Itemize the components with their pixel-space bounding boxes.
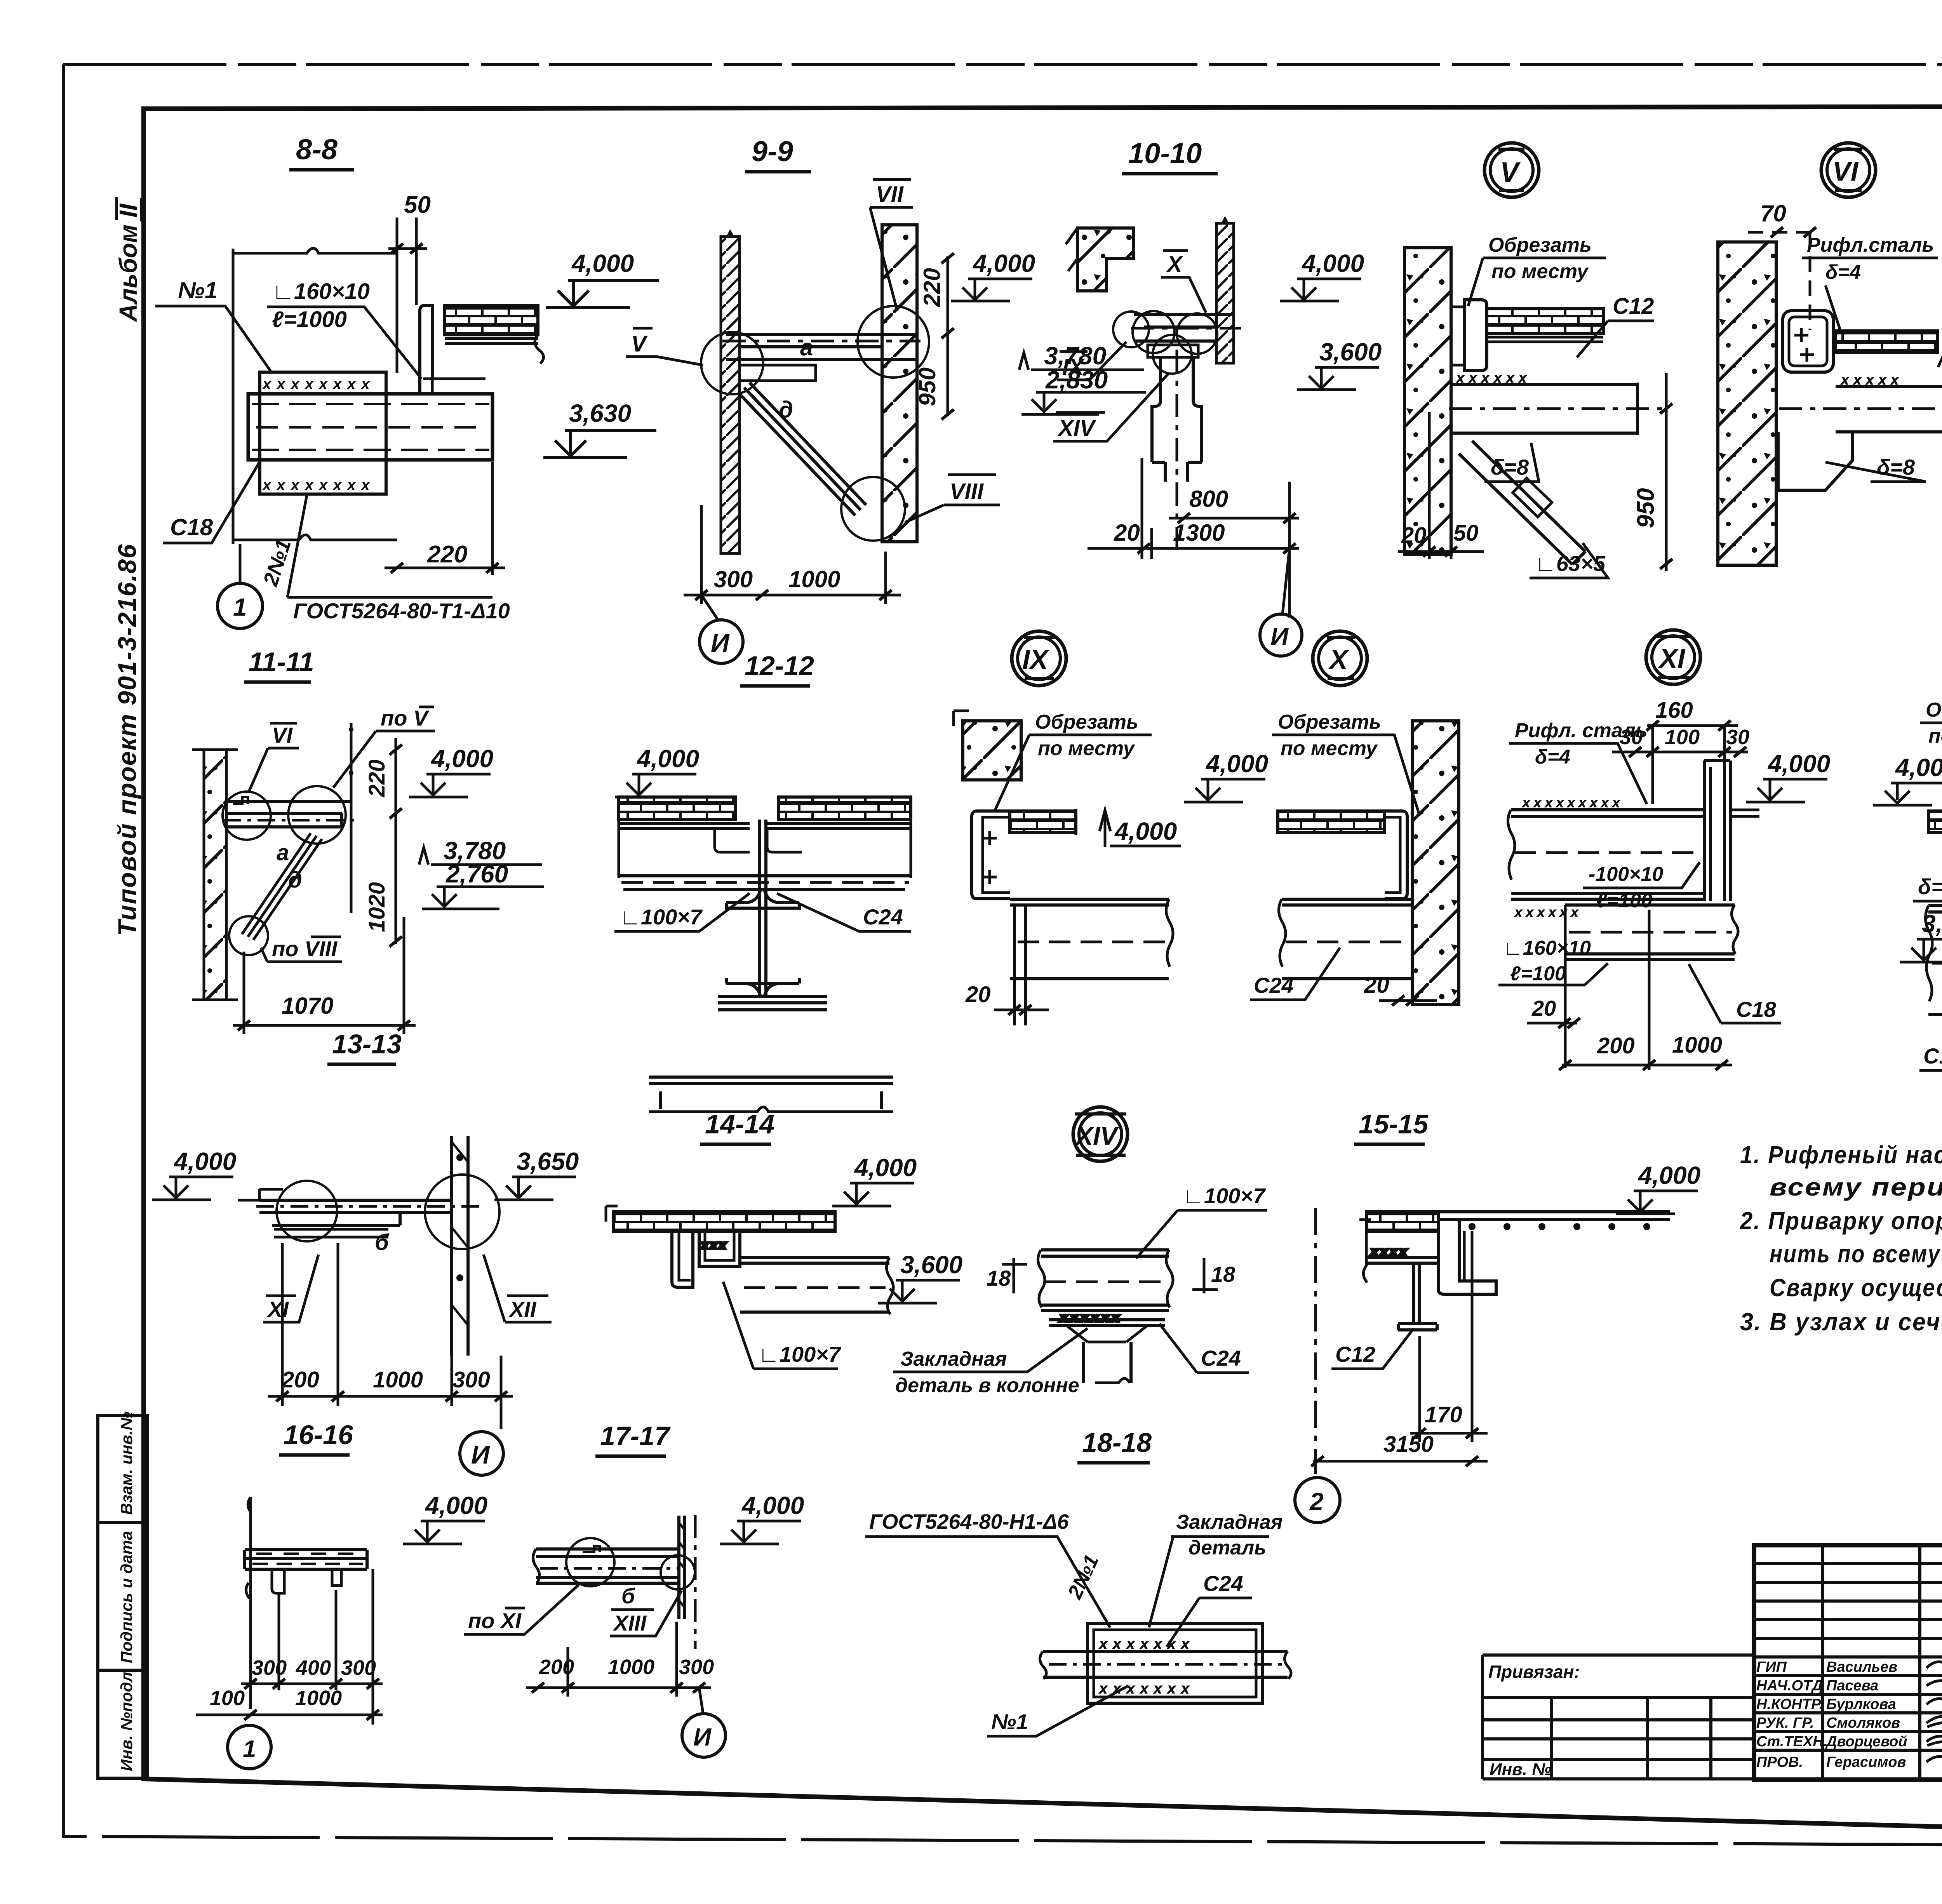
- circle 1 callout: [218, 583, 263, 628]
- svg-text:1: 1: [243, 1736, 256, 1763]
- level 3,630: [543, 399, 656, 458]
- head circle IX: [1012, 631, 1066, 686]
- svg-text:всему периметру опирания.: всему периметру опирания.: [1770, 1173, 1942, 1201]
- small left table: [1483, 1655, 1754, 1779]
- label angle 100x7: [1136, 1183, 1267, 1258]
- L angle hanging: [1438, 1220, 1496, 1294]
- circle 1: [228, 1725, 271, 1769]
- axis circle I: [700, 620, 743, 663]
- label angle 63x5: [1530, 543, 1608, 578]
- long dim line with break: [233, 248, 397, 544]
- rotated 2N1: [259, 536, 296, 589]
- label XIV: [1053, 373, 1169, 441]
- label -100x10 l=100: [1583, 862, 1700, 912]
- level 4,000: [1873, 754, 1942, 805]
- rotated 2N1: [1063, 1551, 1103, 1603]
- head circle XIV: [1073, 1107, 1128, 1161]
- beam C12: [1449, 370, 1666, 435]
- floor plate: [1010, 811, 1076, 833]
- floor thin right with studs: [1438, 1212, 1670, 1229]
- svg-text:xxxxxxx: xxxxxxx: [1098, 1636, 1195, 1652]
- column below: [1152, 350, 1202, 552]
- levels 3,780 / 2,760: [419, 837, 544, 909]
- svg-text:Закладная: Закладная: [900, 1348, 1007, 1370]
- svg-text:б: б: [375, 1230, 390, 1255]
- svg-text:15-15: 15-15: [1359, 1109, 1429, 1139]
- svg-text:по XI: по XI: [468, 1608, 522, 1633]
- embedded plate C18: [260, 372, 386, 494]
- svg-text:И: И: [693, 1723, 712, 1751]
- level 3,650: [494, 1147, 579, 1200]
- outer thin border top: [63, 63, 1942, 66]
- base beam below: [649, 1077, 893, 1112]
- label po XI: [464, 1585, 579, 1634]
- label XI: [263, 1255, 318, 1322]
- label N1 with leader: [155, 277, 272, 373]
- svg-text:1020: 1020: [364, 882, 390, 932]
- svg-text:Типовой проект 901-3-216.86: Типовой проект 901-3-216.86: [113, 543, 141, 936]
- label angle 160x10 l=100: [1498, 937, 1608, 985]
- svg-text:Взам. инв.№: Взам. инв.№: [117, 1411, 136, 1515]
- circle I: [682, 1714, 726, 1757]
- label VII: [870, 179, 913, 311]
- svg-text:ГОСТ5264-80-Н1-Δ6: ГОСТ5264-80-Н1-Δ6: [869, 1510, 1069, 1533]
- svg-text:xxxxxxxxx: xxxxxxxxx: [1522, 795, 1624, 810]
- svg-text:1: 1: [233, 593, 247, 621]
- svg-text:по месту: по месту: [1491, 260, 1589, 283]
- svg-text:xxxx: xxxx: [1370, 1245, 1410, 1258]
- svg-text:3. В узлах и сечениях огра: 3. В узлах и сечениях ограждение условно…: [1740, 1308, 1942, 1336]
- label cut to fit: [1920, 699, 1942, 810]
- wall: [1404, 248, 1451, 555]
- label XIII: [610, 1591, 682, 1636]
- svg-text:Инв. №подл.: Инв. №подл.: [117, 1667, 136, 1771]
- svg-text:по V: по V: [381, 706, 430, 730]
- svg-text:Смоляков: Смоляков: [1826, 1715, 1900, 1731]
- svg-text:С24: С24: [1254, 973, 1294, 997]
- lower beam C18: [1565, 905, 1738, 1068]
- stamp box label: Взам. инв. №: [117, 1411, 136, 1515]
- level 4,000: [720, 1492, 804, 1544]
- detail IX: [954, 631, 1181, 1025]
- wall plate right: [679, 1516, 684, 1619]
- svg-text:V: V: [631, 331, 648, 357]
- corner concrete L: [1077, 228, 1134, 291]
- level 4,000: [546, 249, 659, 308]
- C12 I-beam below: [1398, 1263, 1437, 1330]
- svg-text:10-10: 10-10: [1128, 137, 1202, 169]
- svg-text:4,000: 4,000: [1767, 750, 1830, 778]
- svg-text:∟100×7: ∟100×7: [619, 905, 703, 929]
- diagonal strut V: [1459, 441, 1585, 564]
- svg-text:300: 300: [679, 1655, 714, 1679]
- svg-text:Альбом II: Альбом II: [114, 203, 142, 322]
- svg-text:∟160×10: ∟160×10: [1503, 937, 1591, 959]
- left grid thin rows (upper): [1754, 1564, 1942, 1657]
- beam to right: [740, 1258, 893, 1314]
- label d=8: [1484, 443, 1539, 482]
- level 4,000: [1746, 750, 1830, 802]
- section 17-17: [464, 1421, 804, 1757]
- svg-text:1000: 1000: [1672, 1032, 1722, 1058]
- label zakladnaya detal: [1149, 1511, 1282, 1627]
- level 4,000: [1184, 750, 1268, 802]
- svg-text:IX: IX: [1062, 355, 1085, 380]
- svg-text:И: И: [711, 628, 730, 657]
- label rifl steel: [1509, 719, 1648, 804]
- joint circles: [1113, 311, 1217, 374]
- svg-text:Обрезать: Обрезать: [1035, 711, 1138, 733]
- svg-text:a: a: [800, 334, 813, 360]
- svg-text:Закладная: Закладная: [1176, 1511, 1282, 1533]
- svg-text:220: 220: [919, 268, 945, 307]
- svg-text:С12: С12: [1335, 1342, 1375, 1366]
- svg-text:100: 100: [1665, 726, 1700, 749]
- head circle X: [1313, 631, 1367, 686]
- dims 20 50: [1398, 412, 1484, 559]
- label po VIII: [261, 936, 342, 962]
- beam 9-9: [722, 334, 921, 381]
- svg-text:1070: 1070: [282, 993, 333, 1019]
- svg-text:1300: 1300: [1173, 520, 1225, 546]
- svg-text:400: 400: [296, 1656, 331, 1679]
- svg-text:С18: С18: [1736, 997, 1777, 1022]
- svg-text:200: 200: [281, 1367, 319, 1392]
- svg-text:δ=10: δ=10: [1918, 874, 1942, 899]
- label C12: [1577, 294, 1654, 357]
- svg-text:xxx: xxx: [701, 1239, 728, 1251]
- thin wall with flanges: [452, 1136, 468, 1356]
- svg-text:14-14: 14-14: [705, 1109, 774, 1139]
- svg-text:xxxxxxxx: xxxxxxxx: [262, 376, 375, 393]
- svg-text:4,000: 4,000: [1637, 1161, 1700, 1189]
- svg-text:И: И: [1270, 623, 1289, 651]
- svg-text:950: 950: [914, 367, 940, 406]
- label X top: [1161, 251, 1206, 313]
- role names column: [1756, 1659, 1907, 1770]
- dim 20: [1527, 996, 1580, 1028]
- svg-text:НАЧ.ОТД: НАЧ.ОТД: [1756, 1678, 1823, 1694]
- beam below: [1010, 899, 1173, 1025]
- section 8-8: [155, 133, 659, 628]
- svg-text:1000: 1000: [608, 1655, 654, 1679]
- svg-text:№1: №1: [178, 277, 218, 303]
- level 4,000 right: [1616, 1161, 1700, 1214]
- label C24: [1167, 1571, 1252, 1647]
- svg-text:д: д: [288, 867, 302, 893]
- svg-text:VI: VI: [1832, 156, 1859, 186]
- svg-text:xxxxxx: xxxxxx: [1456, 370, 1531, 386]
- svg-text:И: И: [471, 1440, 490, 1469]
- svg-text:ℓ=1000: ℓ=1000: [272, 307, 347, 332]
- label C24: [1250, 948, 1340, 1000]
- svg-text:Пасева: Пасева: [1826, 1678, 1878, 1694]
- embedded plate: [1088, 1624, 1262, 1703]
- svg-text:18: 18: [987, 1266, 1011, 1290]
- label angle 100x7: [723, 1282, 842, 1369]
- svg-text:70: 70: [1760, 200, 1786, 226]
- svg-text:ℓ=100: ℓ=100: [1510, 962, 1566, 985]
- svg-text:2,760: 2,760: [445, 860, 508, 888]
- bottom dim 1070: [233, 917, 416, 1034]
- svg-text:4,000: 4,000: [425, 1492, 487, 1519]
- beam C12: [1779, 372, 1942, 434]
- svg-text:∟160×10: ∟160×10: [272, 279, 370, 304]
- wall: [204, 750, 226, 1000]
- vertical line: [350, 723, 353, 913]
- vertical dim 950: [1632, 373, 1672, 571]
- axis dash-dot vertical: [1314, 1208, 1317, 1474]
- section 18-18: [865, 1427, 1291, 1736]
- svg-text:δ=4: δ=4: [1825, 261, 1861, 284]
- dim 170: [1410, 1231, 1488, 1442]
- svg-text:8-8: 8-8: [296, 133, 338, 165]
- svg-text:170: 170: [1425, 1402, 1462, 1427]
- svg-text:3,630: 3,630: [569, 399, 631, 427]
- beam: [1038, 1250, 1173, 1311]
- wall: [1412, 721, 1459, 1004]
- svg-text:Инв. №: Инв. №: [1490, 1760, 1552, 1779]
- svg-text:Обрезать: Обрезать: [1926, 699, 1942, 721]
- level 4,000: [403, 1492, 487, 1544]
- svg-text:∟100×7: ∟100×7: [758, 1342, 842, 1366]
- svg-text:XI: XI: [267, 1297, 289, 1321]
- svg-text:200: 200: [1597, 1033, 1635, 1058]
- left thin wall: [721, 237, 740, 553]
- svg-text:С24: С24: [1201, 1346, 1241, 1370]
- margin text: Альбом II: [114, 197, 142, 322]
- title block outer box: [1754, 1545, 1942, 1780]
- joint circles: [277, 1175, 499, 1249]
- label angle 100x7: [614, 893, 750, 931]
- label C12: [1331, 1328, 1414, 1369]
- svg-text:XII: XII: [508, 1297, 537, 1321]
- svg-text:V: V: [1500, 157, 1521, 188]
- label cut to fit: [994, 711, 1152, 812]
- label XII: [484, 1255, 552, 1322]
- svg-text:XIV: XIV: [1074, 1121, 1119, 1150]
- svg-text:б: б: [621, 1584, 635, 1608]
- svg-text:4,000: 4,000: [636, 745, 699, 773]
- svg-text:деталь в колонне: деталь в колонне: [895, 1374, 1079, 1397]
- wall: [1718, 242, 1776, 565]
- svg-text:20: 20: [1531, 996, 1556, 1020]
- svg-text:по месту: по месту: [1038, 737, 1136, 760]
- left vertical with break: [246, 1497, 251, 1709]
- svg-text:IX: IX: [1022, 644, 1049, 675]
- dims 300 400 300: [241, 1656, 383, 1689]
- svg-text:VII: VII: [876, 182, 904, 207]
- svg-text:Обрезать: Обрезать: [1278, 711, 1381, 733]
- label cut to fit: [1272, 711, 1420, 816]
- beam below: [1279, 899, 1412, 979]
- label VIII: [905, 475, 1000, 522]
- axis circle 2: [1295, 1478, 1340, 1523]
- label d=10: [1913, 874, 1942, 909]
- outer thin border bottom: [63, 1836, 1942, 1847]
- vertical dims 220 1020: [364, 738, 402, 947]
- svg-text:30: 30: [1726, 726, 1749, 749]
- level 3,600: [878, 1251, 962, 1303]
- label C12: [1938, 289, 1942, 367]
- angle 160x10 with floor plate: [420, 305, 544, 394]
- svg-text:Бурлкова: Бурлкова: [1826, 1696, 1896, 1713]
- bottom plate with welds: [1049, 1311, 1165, 1383]
- svg-text:50: 50: [404, 191, 431, 218]
- svg-text:a: a: [277, 840, 289, 865]
- outer thin border left: [62, 64, 65, 1838]
- svg-text:XI: XI: [1658, 643, 1686, 674]
- diagonal strut: [739, 383, 866, 515]
- dims 30 100 30: [1612, 726, 1749, 804]
- svg-text:20: 20: [1401, 523, 1427, 548]
- svg-text:4,000: 4,000: [571, 249, 634, 277]
- label cut to fit: [1468, 234, 1606, 306]
- svg-text:300: 300: [252, 1656, 287, 1679]
- svg-text:50: 50: [1453, 520, 1479, 546]
- svg-text:С24: С24: [863, 905, 903, 929]
- dim 3150: [1311, 1432, 1488, 1466]
- detail V: [1398, 143, 1672, 578]
- section 14-14: [606, 1109, 917, 1369]
- svg-text:4,000: 4,000: [1114, 817, 1177, 845]
- section 15-15: [1295, 1109, 1700, 1523]
- label rifl steel: [1802, 234, 1938, 330]
- head circle XI: [1646, 630, 1700, 684]
- beam through plate: [1040, 1652, 1291, 1679]
- svg-text:4,000: 4,000: [173, 1147, 236, 1175]
- svg-text:X: X: [1166, 252, 1183, 277]
- label C18: [1919, 1020, 1942, 1070]
- support beams under floor: [619, 820, 911, 889]
- stamp box label: Инв. № подл.: [117, 1667, 136, 1771]
- label C24: [1159, 1324, 1249, 1373]
- floor plate left: [1366, 1212, 1438, 1231]
- upper beam with vertical member: [1508, 761, 1759, 920]
- svg-text:Герасимов: Герасимов: [1826, 1754, 1906, 1770]
- svg-text:4,000: 4,000: [741, 1492, 804, 1519]
- dim 18 right: [1192, 1258, 1236, 1293]
- svg-text:9-9: 9-9: [752, 135, 793, 167]
- label N1: [987, 1686, 1128, 1736]
- label zakladnaya detal v kolonne: [893, 1328, 1088, 1397]
- dim 20: [965, 982, 1049, 1015]
- svg-text:по месту: по месту: [1281, 737, 1378, 760]
- head circle VI: [1821, 143, 1876, 197]
- svg-text:3,600: 3,600: [900, 1251, 962, 1279]
- svg-text:деталь: деталь: [1189, 1537, 1266, 1559]
- svg-text:№1: №1: [991, 1709, 1028, 1734]
- gusset d=8: [1778, 432, 1853, 490]
- svg-text:∟100×7: ∟100×7: [1183, 1183, 1266, 1208]
- svg-text:ПРОВ.: ПРОВ.: [1756, 1754, 1803, 1770]
- svg-text:18-18: 18-18: [1082, 1427, 1152, 1458]
- svg-text:4,000: 4,000: [430, 745, 493, 773]
- dim 160 top: [1646, 698, 1738, 731]
- svg-text:-100×10: -100×10: [1589, 863, 1663, 886]
- level 3,650: [1900, 910, 1942, 962]
- level 4,000: [951, 249, 1035, 301]
- svg-text:100: 100: [210, 1686, 245, 1710]
- section 12-12: [614, 651, 911, 1112]
- svg-text:С24: С24: [1203, 1571, 1243, 1596]
- svg-text:XIV: XIV: [1057, 416, 1096, 441]
- detail XIV: [878, 1107, 1267, 1397]
- joint circles: [701, 306, 929, 541]
- svg-text:Привязан:: Привязан:: [1488, 1662, 1580, 1682]
- floor strip: [245, 1550, 367, 1569]
- svg-text:Рифл. сталь: Рифл. сталь: [1515, 719, 1648, 742]
- dim 18 left: [987, 1258, 1027, 1293]
- svg-text:4,000: 4,000: [1301, 249, 1364, 277]
- bracket member: [223, 797, 355, 827]
- bottom dim line with break: [233, 535, 397, 540]
- svg-text:20: 20: [965, 982, 991, 1007]
- square tube: [1783, 311, 1833, 372]
- level 4,000: [615, 745, 699, 797]
- beam 10-10: [1131, 315, 1241, 357]
- svg-text:Сварку осуществлять электрод: Сварку осуществлять электродами типа Э46…: [1770, 1274, 1942, 1302]
- svg-text:800: 800: [1189, 486, 1228, 512]
- axis circle I: [1260, 614, 1302, 656]
- left stamp boxes: [98, 1416, 148, 1778]
- svg-text:нить по всему периметру соп: нить по всему периметру сопряжения с зак…: [1770, 1240, 1942, 1268]
- section 9-9: [626, 135, 1146, 663]
- label V left: [626, 328, 703, 365]
- svg-text:Васильев: Васильев: [1826, 1659, 1897, 1675]
- lower floor left: [1363, 1231, 1437, 1283]
- svg-text:∟63×5: ∟63×5: [1535, 551, 1606, 576]
- diagonal strut: [242, 833, 322, 940]
- svg-text:ГОСТ5264-80-Т1-Δ10: ГОСТ5264-80-Т1-Δ10: [293, 599, 510, 623]
- joint circles: [223, 786, 346, 955]
- label C18 with leader: [163, 462, 259, 543]
- label GOST weld: [287, 495, 510, 623]
- dim 70: [1748, 200, 1818, 330]
- label C18: [1689, 964, 1781, 1023]
- section 10-10: [1053, 137, 1382, 656]
- svg-text:VI: VI: [272, 723, 293, 747]
- svg-text:220: 220: [427, 541, 467, 568]
- svg-text:3,650: 3,650: [517, 1147, 579, 1175]
- floor plates both sides: [619, 797, 735, 820]
- section 13-13: [152, 1029, 579, 1475]
- svg-text:160: 160: [1655, 698, 1693, 723]
- svg-text:3,650: 3,650: [1922, 910, 1942, 938]
- svg-text:xxxxxx: xxxxxx: [1060, 1311, 1122, 1324]
- svg-text:1000: 1000: [788, 566, 840, 592]
- level 3,600: [1297, 338, 1382, 390]
- detail XI: [1498, 630, 1830, 1070]
- level 4,000: [152, 1147, 236, 1200]
- svg-text:Дворцевой: Дворцевой: [1825, 1733, 1907, 1750]
- svg-text:д: д: [779, 397, 793, 423]
- floor plate: [614, 1212, 835, 1231]
- axis circle I: [460, 1432, 503, 1475]
- label po V: [333, 706, 435, 788]
- hangers below: [272, 1569, 341, 1593]
- svg-text:ℓ=100: ℓ=100: [1596, 889, 1652, 912]
- C channel: [1385, 811, 1407, 899]
- left grid name rows: [1754, 1676, 1942, 1750]
- detail XII: [1873, 627, 1942, 1084]
- I-beam C24 below: [718, 820, 827, 1010]
- vertical dim 220/950: [914, 253, 954, 419]
- svg-text:20: 20: [1364, 973, 1389, 998]
- svg-text:С18: С18: [170, 514, 213, 540]
- floor plate: [1487, 309, 1603, 334]
- section 16-16: [196, 1420, 487, 1769]
